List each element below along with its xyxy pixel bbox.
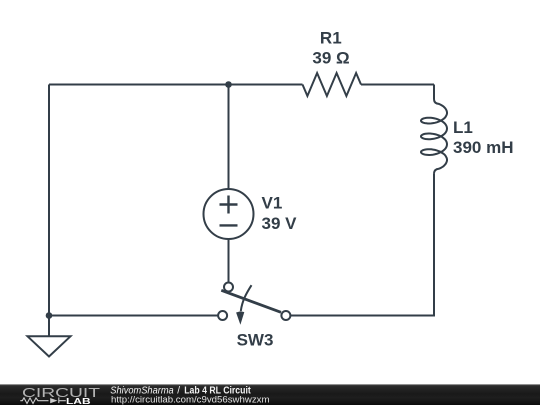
svg-text:http://circuitlab.com/c9vd56sw: http://circuitlab.com/c9vd56swhwzxm <box>111 395 270 405</box>
svg-text:R1: R1 <box>320 28 342 47</box>
svg-text:V1: V1 <box>262 194 283 213</box>
svg-text:390 mH: 390 mH <box>453 138 513 157</box>
svg-text:L1: L1 <box>453 118 473 137</box>
svg-text:39 V: 39 V <box>262 214 298 233</box>
svg-text:LAB: LAB <box>66 396 91 405</box>
svg-text:SW3: SW3 <box>237 331 274 350</box>
svg-text:39 Ω: 39 Ω <box>312 49 349 68</box>
